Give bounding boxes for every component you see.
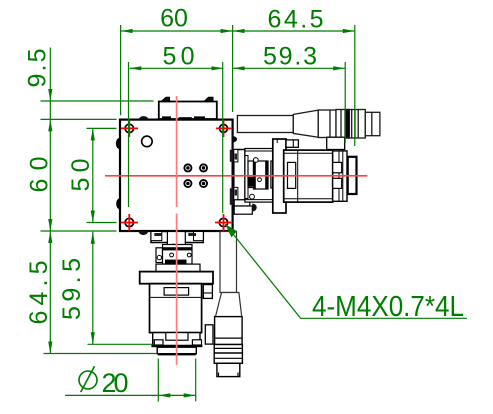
svg-text:64.5: 64.5 (25, 261, 53, 325)
svg-text:64.5: 64.5 (268, 6, 324, 34)
svg-text:60: 60 (160, 5, 188, 33)
svg-text:4-M4X0.7*4L: 4-M4X0.7*4L (312, 291, 464, 323)
svg-text:20: 20 (102, 368, 129, 398)
svg-text:9.5: 9.5 (24, 49, 52, 88)
svg-text:59.3: 59.3 (263, 43, 317, 71)
svg-text:59.5: 59.5 (58, 258, 86, 320)
